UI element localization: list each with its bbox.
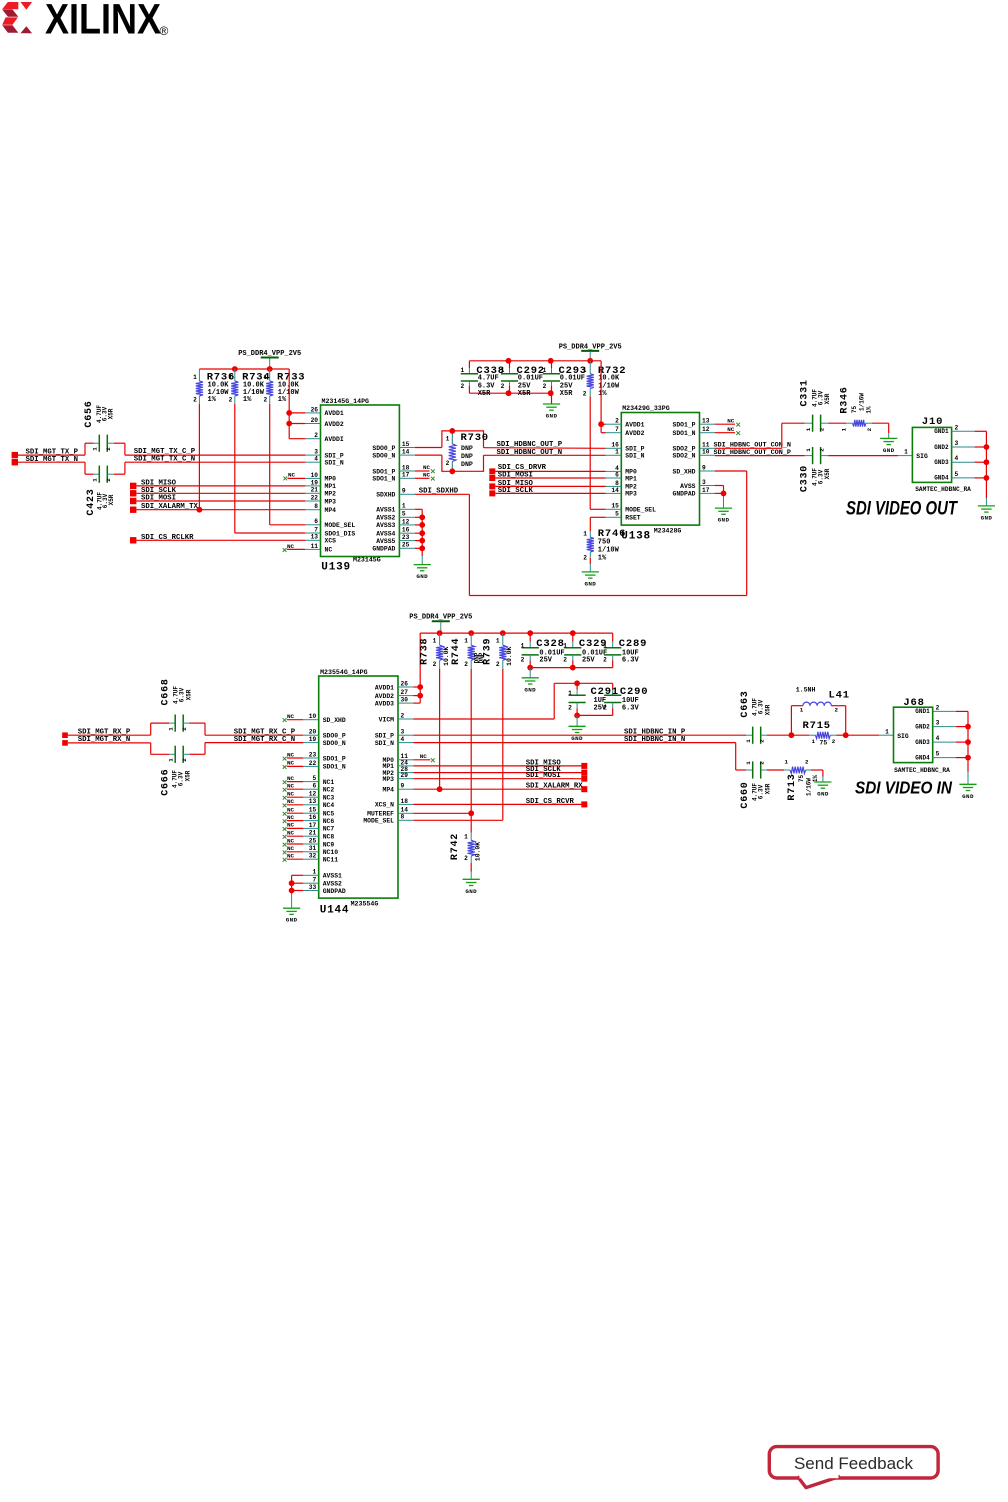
- svg-text:SDO0_N: SDO0_N: [372, 452, 395, 459]
- svg-text:NC: NC: [423, 464, 431, 471]
- svg-text:®: ®: [160, 24, 169, 38]
- svg-text:2: 2: [759, 761, 766, 765]
- svg-text:1: 1: [167, 758, 174, 762]
- svg-text:15: 15: [309, 807, 317, 814]
- ground U138: [715, 508, 732, 523]
- svg-text:AVDD1: AVDD1: [625, 422, 644, 429]
- svg-text:NC7: NC7: [323, 826, 335, 833]
- svg-text:1: 1: [521, 642, 525, 649]
- svg-text:NC: NC: [287, 837, 295, 844]
- wire power rail 3: [420, 632, 613, 634]
- svg-text:6: 6: [314, 518, 318, 525]
- wire SDO0_P to R730 box: [415, 448, 442, 456]
- svg-text:1: 1: [800, 707, 804, 714]
- node SDI_MISO flag (driver): [489, 480, 606, 490]
- junction C291 top: [574, 680, 580, 686]
- svg-text:2: 2: [603, 704, 607, 711]
- svg-text:1: 1: [583, 530, 587, 537]
- svg-text:SDI_HDBNC_OUT_N: SDI_HDBNC_OUT_N: [497, 449, 563, 457]
- no-connect U138 pin 13: [715, 418, 740, 427]
- Xilinx wordmark: [45, 0, 169, 44]
- junction bottom C292: [506, 390, 512, 396]
- Send Feedback button: [769, 1447, 938, 1488]
- no-connect U144 NC pin: [283, 845, 304, 854]
- svg-text:4.7UF: 4.7UF: [478, 374, 499, 382]
- svg-text:SDO1_N: SDO1_N: [672, 430, 695, 437]
- svg-text:X5R: X5R: [108, 494, 115, 505]
- svg-text:1: 1: [543, 367, 547, 374]
- svg-text:NC10: NC10: [323, 849, 339, 856]
- svg-text:6.3V: 6.3V: [622, 704, 640, 712]
- svg-text:U144: U144: [320, 905, 350, 917]
- svg-text:26: 26: [311, 406, 319, 413]
- IC U144 M23554G_14PG: [303, 669, 413, 917]
- svg-text:2: 2: [501, 383, 505, 390]
- svg-text:12: 12: [402, 518, 410, 525]
- svg-text:R730: R730: [461, 432, 489, 444]
- svg-text:X5R: X5R: [518, 390, 531, 398]
- no-connect U144 NC pin: [283, 751, 304, 760]
- svg-text:4: 4: [936, 735, 940, 742]
- junction AVSS bus: [419, 522, 425, 528]
- IC U139 M23145G_14PG: [305, 398, 415, 573]
- svg-text:J10: J10: [922, 416, 943, 428]
- svg-text:GND4: GND4: [934, 475, 949, 482]
- svg-text:NC11: NC11: [323, 857, 339, 864]
- svg-text:1: 1: [167, 727, 174, 731]
- power flag PS_DDR4_VPP_2V5 (TX): [238, 350, 301, 369]
- svg-text:MODE_SEL: MODE_SEL: [625, 507, 656, 514]
- svg-text:SDI_HDBNC_IN_N: SDI_HDBNC_IN_N: [624, 736, 685, 744]
- svg-text:SDI_N: SDI_N: [375, 740, 394, 747]
- svg-text:MP3: MP3: [625, 491, 637, 498]
- svg-text:16: 16: [611, 442, 619, 449]
- ground R742: [463, 879, 480, 895]
- junction J68 gnd: [965, 755, 971, 761]
- svg-text:NC: NC: [287, 798, 295, 805]
- svg-text:2: 2: [543, 383, 547, 390]
- no-connect U144 NC pin: [283, 837, 304, 846]
- svg-text:1%: 1%: [208, 396, 217, 404]
- wire SDI_HDBNC_OUT_N: [484, 449, 606, 457]
- resistor R730 DNP: [442, 428, 489, 474]
- svg-text:2: 2: [568, 704, 572, 711]
- svg-text:11: 11: [311, 543, 319, 550]
- svg-text:NC: NC: [287, 822, 295, 829]
- svg-text:NC8: NC8: [323, 834, 335, 841]
- svg-text:1: 1: [402, 503, 406, 510]
- node SDI_MISO flag: [130, 479, 305, 489]
- svg-text:2: 2: [615, 418, 619, 425]
- svg-text:1: 1: [568, 690, 572, 697]
- svg-text:2: 2: [521, 657, 525, 664]
- svg-text:NC: NC: [287, 760, 295, 767]
- svg-text:DNP: DNP: [461, 453, 473, 460]
- wire C663 to R715 node: [761, 734, 792, 736]
- resistor R738 10.0K: [419, 633, 450, 669]
- node SDI_MOSI flag (receiver): [414, 772, 588, 782]
- svg-text:2: 2: [832, 738, 836, 745]
- svg-text:AVSS1: AVSS1: [376, 507, 395, 514]
- junction J10 gnd: [984, 475, 990, 481]
- svg-text:GND1: GND1: [915, 708, 930, 715]
- svg-text:1%: 1%: [278, 396, 287, 404]
- wire SDI_HDBNC_OUT_CON_P: [714, 449, 813, 457]
- svg-text:XCS: XCS: [325, 538, 337, 545]
- svg-text:1: 1: [583, 367, 587, 374]
- wire SDI_HDBNC_OUT_P: [484, 441, 606, 449]
- svg-text:GND3: GND3: [915, 739, 930, 746]
- svg-text:X5R: X5R: [186, 689, 193, 700]
- svg-text:1: 1: [460, 367, 464, 374]
- ground U144: [283, 908, 300, 924]
- svg-text:2: 2: [805, 759, 809, 766]
- no-connect U144 NC pin: [283, 760, 304, 769]
- svg-text:15: 15: [402, 441, 410, 448]
- svg-text:NC: NC: [287, 830, 295, 837]
- svg-text:1: 1: [464, 833, 468, 840]
- svg-text:2: 2: [401, 712, 405, 719]
- ground under C328: [522, 668, 539, 694]
- node SDI_XALARM_RX flag: [414, 783, 588, 793]
- svg-text:MP2: MP2: [625, 484, 637, 491]
- junction rail3: [527, 630, 533, 636]
- junction AVSS bus: [419, 514, 425, 520]
- svg-text:1: 1: [92, 447, 99, 451]
- no-connect U144 NC pin: [283, 807, 304, 816]
- svg-text:2: 2: [759, 739, 766, 743]
- wire SDI_HDBNC_IN_P: [414, 729, 753, 737]
- wire to J68 pin 1: [846, 728, 894, 735]
- svg-text:GND: GND: [883, 447, 895, 454]
- svg-text:6.3V: 6.3V: [178, 771, 185, 786]
- junction AVSS2: [289, 880, 295, 886]
- svg-text:1: 1: [312, 869, 316, 876]
- IC U138 M23429G_33PG: [606, 405, 715, 543]
- svg-text:2: 2: [464, 661, 468, 668]
- node SDI_CS_DRVR flag (driver): [489, 464, 606, 475]
- power flag PS_DDR4_VPP_2V5 (IN): [409, 614, 472, 634]
- node SDI_MGT_TX_P flag: [12, 448, 79, 458]
- svg-text:AVSS: AVSS: [680, 483, 696, 490]
- svg-text:25V: 25V: [582, 657, 595, 665]
- svg-text:15: 15: [611, 503, 619, 510]
- capacitor C329 0.01UF: [563, 633, 607, 664]
- wire R732 to U138 MODE_SEL: [590, 397, 606, 510]
- svg-text:NC: NC: [287, 807, 295, 814]
- svg-text:19: 19: [311, 479, 319, 486]
- svg-text:M23145G_14PG: M23145G_14PG: [322, 398, 370, 405]
- capacitor C291 1UF: [568, 686, 619, 712]
- ground R713: [814, 782, 831, 798]
- ground J68: [959, 784, 976, 800]
- svg-text:C668: C668: [161, 678, 172, 705]
- svg-text:SDO1_P: SDO1_P: [372, 468, 395, 475]
- svg-text:2: 2: [105, 478, 112, 482]
- junction bottom C293: [548, 390, 554, 396]
- svg-text:SD_XHD: SD_XHD: [672, 468, 695, 475]
- junction AVSS bus: [419, 530, 425, 536]
- svg-text:5: 5: [955, 471, 959, 478]
- node SDI_MGT_RX_N flag: [62, 736, 130, 746]
- capacitor C660 4.7UF: [740, 761, 772, 809]
- svg-text:SD_XHD: SD_XHD: [323, 717, 346, 724]
- svg-text:2: 2: [460, 383, 464, 390]
- capacitor C328 0.01UF: [521, 633, 565, 664]
- junction rail3: [500, 630, 506, 636]
- svg-text:1: 1: [904, 449, 908, 456]
- capacitor C423 4.7UF: [86, 466, 115, 516]
- svg-text:AVSS4: AVSS4: [376, 531, 395, 538]
- svg-text:NC: NC: [287, 543, 295, 550]
- junction J10 gnd: [984, 444, 990, 450]
- svg-text:25V: 25V: [539, 657, 552, 665]
- wire C666 to U144 SDO0_N: [183, 736, 303, 755]
- svg-text:GNDPAD: GNDPAD: [323, 888, 346, 895]
- svg-text:16: 16: [309, 814, 317, 821]
- svg-text:MP4: MP4: [325, 507, 337, 514]
- node SDI_CS_RCVR flag: [414, 798, 588, 808]
- svg-text:MODE_SEL: MODE_SEL: [325, 522, 356, 529]
- no-connect U139 pin 10: [283, 472, 305, 481]
- svg-text:SDI_P: SDI_P: [375, 733, 394, 740]
- svg-text:SDO1_DIS: SDO1_DIS: [325, 530, 356, 537]
- junction R736/MP4: [197, 507, 203, 513]
- no-connect U139 pin 18: [415, 464, 435, 473]
- svg-text:10: 10: [702, 449, 710, 456]
- ground under C293: [543, 404, 560, 420]
- svg-text:1: 1: [841, 427, 848, 431]
- svg-text:SDI_N: SDI_N: [325, 460, 344, 467]
- wire SDI_HDBNC_IN_N: [414, 736, 753, 770]
- resistor R733 10.0K: [263, 369, 305, 404]
- svg-text:2: 2: [263, 397, 267, 404]
- wire R734 column to SDO1_DIS pin 7: [235, 404, 306, 533]
- svg-text:1: 1: [464, 637, 468, 644]
- wire C330 to J10 pin 1: [821, 449, 913, 456]
- svg-text:6.3V: 6.3V: [758, 699, 765, 714]
- svg-text:2: 2: [955, 424, 959, 431]
- svg-text:X5R: X5R: [765, 783, 772, 794]
- svg-text:X5R: X5R: [478, 390, 491, 398]
- junction J68 gnd: [965, 724, 971, 730]
- svg-text:25: 25: [309, 837, 317, 844]
- junction R738/MP4: [437, 786, 443, 792]
- svg-text:M23554G: M23554G: [351, 901, 379, 908]
- svg-text:XCS_N: XCS_N: [375, 802, 394, 809]
- wire R736 column to SDI_XALARM_TX row: [198, 404, 200, 510]
- svg-text:NC: NC: [325, 547, 333, 554]
- capacitor C668 4.7UF: [161, 678, 193, 731]
- svg-text:MP1: MP1: [325, 483, 337, 490]
- svg-text:9: 9: [401, 783, 405, 790]
- node SDI_MOSI flag (driver): [489, 471, 606, 481]
- junction bottom C328: [527, 665, 533, 671]
- svg-text:2: 2: [563, 657, 567, 664]
- svg-text:1%: 1%: [598, 555, 607, 563]
- svg-text:SDO0_P: SDO0_P: [372, 445, 395, 452]
- svg-text:M23429G_33PG: M23429G_33PG: [622, 405, 670, 412]
- wire TX_P to C656: [18, 443, 99, 455]
- svg-text:1: 1: [263, 374, 267, 381]
- junction on rail at R734: [232, 366, 238, 372]
- junction rail3: [437, 630, 443, 636]
- svg-text:GND: GND: [981, 514, 993, 521]
- svg-text:X5R: X5R: [560, 390, 573, 398]
- svg-text:SDI_N: SDI_N: [625, 453, 644, 460]
- svg-text:2: 2: [464, 855, 468, 862]
- svg-text:GND: GND: [286, 917, 298, 924]
- svg-text:R739: R739: [483, 638, 494, 665]
- node SDI_MOSI flag: [130, 495, 305, 505]
- svg-text:16: 16: [402, 527, 410, 534]
- svg-text:1: 1: [615, 449, 619, 456]
- wire C423 to U139 SDI_N: [107, 455, 305, 474]
- svg-text:1/16W: 1/16W: [858, 393, 865, 411]
- svg-text:AVDDI: AVDDI: [325, 436, 344, 443]
- svg-text:1: 1: [501, 367, 505, 374]
- svg-text:8: 8: [401, 814, 405, 821]
- svg-text:SDXHD: SDXHD: [376, 492, 395, 499]
- svg-text:SDI_SDXHD: SDI_SDXHD: [419, 488, 459, 496]
- junction AVSS bus: [419, 545, 425, 551]
- svg-text:AVDD2: AVDD2: [375, 693, 394, 700]
- svg-text:1/10W: 1/10W: [598, 546, 620, 554]
- svg-text:2: 2: [181, 758, 188, 762]
- svg-text:SDI_MGT_RX_C_N: SDI_MGT_RX_C_N: [234, 736, 295, 744]
- node SDI_XALARM_TX flag: [130, 503, 305, 513]
- svg-text:SDI_P: SDI_P: [625, 446, 644, 453]
- no-connect U144 NC pin: [283, 798, 304, 807]
- svg-text:4: 4: [314, 456, 318, 463]
- svg-text:3: 3: [936, 720, 940, 727]
- svg-text:L41: L41: [829, 690, 850, 702]
- node SDI_MGT_RX_P flag: [62, 728, 131, 738]
- svg-text:12: 12: [309, 791, 317, 798]
- svg-text:GND2: GND2: [934, 444, 949, 451]
- svg-text:8: 8: [314, 503, 318, 510]
- node SDI_MGT_TX_N flag: [12, 456, 78, 466]
- svg-text:2: 2: [229, 397, 233, 404]
- svg-text:NC5: NC5: [323, 811, 335, 818]
- junction U144 AVDD2: [417, 693, 423, 699]
- ground U139 AVSS: [414, 556, 431, 580]
- svg-text:1%: 1%: [243, 396, 252, 404]
- svg-text:X5R: X5R: [108, 408, 115, 419]
- capacitor C666 4.7UF: [161, 746, 192, 796]
- junction U138 AVDD1: [598, 421, 604, 427]
- svg-text:GND: GND: [584, 580, 596, 587]
- svg-text:30: 30: [401, 697, 409, 704]
- svg-text:1: 1: [745, 739, 752, 743]
- svg-text:1: 1: [193, 374, 197, 381]
- ground R346: [880, 438, 897, 454]
- wire U144 AVSS bus: [292, 875, 304, 907]
- wire J68 ground bus: [967, 711, 969, 783]
- svg-text:AVSS5: AVSS5: [376, 538, 395, 545]
- wire C656 to U139 SDI_P: [107, 443, 305, 456]
- svg-text:10: 10: [309, 713, 317, 720]
- svg-text:2: 2: [835, 707, 839, 714]
- svg-text:75: 75: [798, 775, 805, 783]
- svg-text:1: 1: [563, 642, 567, 649]
- svg-text:20: 20: [309, 729, 317, 736]
- junction L41/R715 left: [789, 732, 795, 738]
- svg-text:2: 2: [819, 427, 826, 431]
- svg-text:GND: GND: [962, 793, 974, 800]
- wire power rail 2: [469, 360, 601, 362]
- svg-text:10.0K: 10.0K: [475, 842, 482, 861]
- svg-text:1.5NH: 1.5NH: [796, 686, 816, 693]
- wire rail3 bottom return: [530, 661, 613, 668]
- svg-text:C331: C331: [800, 379, 811, 406]
- junction rail2: [506, 358, 512, 364]
- svg-text:C330: C330: [800, 465, 811, 492]
- svg-text:MP3: MP3: [325, 498, 337, 505]
- svg-text:AVDD1: AVDD1: [375, 684, 394, 691]
- svg-text:C663: C663: [740, 690, 751, 717]
- capacitor C293 0.01UF: [543, 361, 587, 398]
- svg-text:AVSS1: AVSS1: [323, 873, 342, 880]
- capacitor C292 0.01UF: [501, 361, 545, 398]
- svg-text:6.3V: 6.3V: [622, 657, 640, 665]
- svg-text:GND3: GND3: [934, 459, 949, 466]
- svg-text:GND: GND: [416, 573, 428, 580]
- no-connect U144 MP0: [414, 753, 435, 762]
- capacitor C663 4.7UF: [740, 690, 772, 743]
- svg-text:6.3V: 6.3V: [758, 784, 765, 799]
- svg-text:SDO1_N: SDO1_N: [323, 764, 346, 771]
- svg-text:2: 2: [583, 390, 587, 397]
- node SDI_SCLK flag (receiver): [414, 766, 588, 776]
- svg-text:SDO1_P: SDO1_P: [672, 422, 695, 429]
- connector J10 SAMTEC_HDBNC_RA: [912, 416, 986, 493]
- wire RX_P to C668: [68, 723, 175, 735]
- svg-text:5: 5: [402, 511, 406, 518]
- svg-text:1: 1: [812, 738, 816, 745]
- svg-text:R738: R738: [419, 638, 430, 665]
- svg-text:1%: 1%: [812, 775, 819, 783]
- svg-text:MP2: MP2: [325, 491, 337, 498]
- svg-text:18: 18: [401, 798, 409, 805]
- svg-text:M23554G_14PG: M23554G_14PG: [320, 669, 368, 676]
- power flag PS_DDR4_VPP_2V5 (OUT): [559, 343, 622, 361]
- wire R738 to MP4: [439, 669, 441, 789]
- svg-text:GND4: GND4: [915, 754, 930, 761]
- svg-text:R742: R742: [450, 833, 461, 860]
- junction U144 AVDD1: [417, 684, 423, 690]
- svg-text:SDO0_N: SDO0_N: [323, 740, 346, 747]
- node SDI_SCLK flag (driver): [489, 487, 606, 497]
- wire AVDD drop to U139: [289, 369, 305, 439]
- svg-text:18: 18: [402, 464, 410, 471]
- junction bottom C329: [570, 665, 576, 671]
- resistor R744 DNP: [451, 633, 485, 669]
- svg-text:C660: C660: [740, 781, 751, 808]
- svg-text:AVDD2: AVDD2: [325, 421, 344, 428]
- svg-text:GND: GND: [571, 735, 583, 742]
- svg-text:22: 22: [309, 760, 317, 767]
- svg-text:NC6: NC6: [323, 818, 335, 825]
- svg-text:10: 10: [311, 472, 319, 479]
- svg-text:AVSS3: AVSS3: [376, 522, 395, 529]
- no-connect U144 NC pin: [283, 853, 304, 862]
- svg-text:X5R: X5R: [765, 704, 772, 715]
- svg-text:17: 17: [309, 822, 317, 829]
- svg-text:NC: NC: [727, 418, 735, 425]
- svg-text:SDI VIDEO OUT: SDI VIDEO OUT: [846, 499, 958, 520]
- svg-text:NC: NC: [288, 472, 296, 479]
